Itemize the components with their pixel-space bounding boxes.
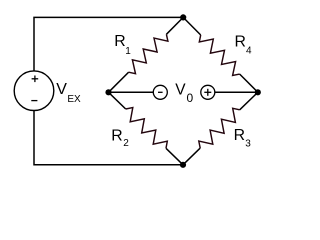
- resistor R2: [109, 92, 184, 165]
- resistor R1: [109, 17, 184, 92]
- wire from V_EX + terminal up and right to top node: [34, 17, 183, 71]
- label R2: [111, 128, 129, 150]
- svg-text:1: 1: [125, 46, 131, 57]
- label R1: [114, 33, 131, 57]
- svg-text:R: R: [235, 33, 246, 50]
- svg-text:0: 0: [187, 91, 194, 105]
- label V_EX: [56, 81, 81, 105]
- svg-text:R: R: [114, 33, 125, 50]
- svg-text:R: R: [234, 127, 245, 144]
- output terminal - (circled minus): [153, 85, 167, 99]
- wire from left node to output terminal -: [109, 91, 154, 93]
- svg-text:EX: EX: [67, 94, 81, 105]
- wire from V_EX - terminal down and right to bottom node: [34, 111, 183, 165]
- svg-text:2: 2: [123, 138, 129, 149]
- svg-text:V: V: [56, 81, 67, 98]
- label R4: [235, 33, 253, 56]
- svg-text:R: R: [111, 128, 122, 145]
- resistor R3: [183, 92, 258, 165]
- node bottom junction: [180, 162, 186, 168]
- svg-text:4: 4: [246, 46, 252, 57]
- node right junction: [255, 89, 261, 95]
- wire from output terminal + to right node: [215, 91, 258, 93]
- voltage source V_EX: [14, 71, 54, 111]
- label V_0: [175, 82, 193, 105]
- node top junction: [180, 14, 186, 20]
- label R3: [234, 127, 252, 149]
- node left junction: [105, 89, 111, 95]
- output terminal + (circled plus): [201, 85, 215, 99]
- svg-text:V: V: [175, 82, 186, 99]
- resistor R4: [183, 17, 258, 92]
- svg-text:3: 3: [245, 138, 251, 149]
